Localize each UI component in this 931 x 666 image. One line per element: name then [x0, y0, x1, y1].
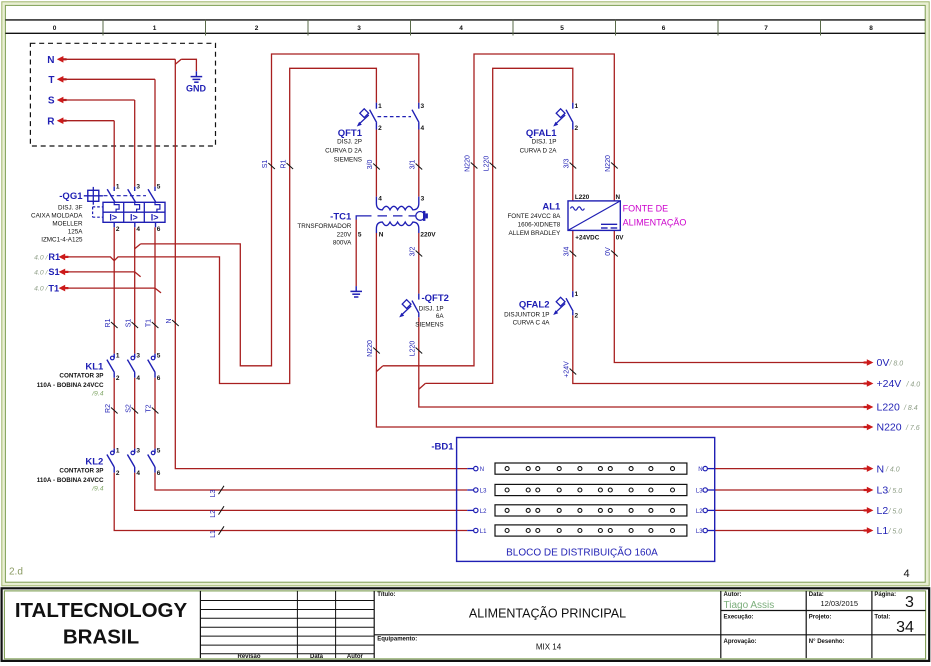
svg-text:4.0 /: 4.0 / — [34, 286, 48, 293]
svg-text:/ 5.0: / 5.0 — [888, 508, 903, 515]
svg-text:3: 3 — [136, 352, 140, 359]
svg-text:CURVA C 4A: CURVA C 4A — [513, 320, 551, 327]
svg-text:AL1: AL1 — [542, 201, 561, 212]
svg-text:/ 5.0: / 5.0 — [888, 529, 903, 536]
svg-text:KL1: KL1 — [85, 362, 104, 373]
svg-text:DISJ. 2P: DISJ. 2P — [337, 138, 362, 145]
svg-text:3: 3 — [421, 196, 425, 203]
svg-text:L220: L220 — [483, 156, 490, 172]
svg-text:5: 5 — [157, 447, 161, 454]
svg-text:800VA: 800VA — [333, 239, 352, 246]
svg-text:S2: S2 — [125, 404, 132, 413]
svg-text:4.0 /: 4.0 / — [34, 255, 48, 262]
svg-text:7: 7 — [764, 25, 768, 32]
svg-text:0: 0 — [53, 25, 57, 32]
svg-text:L220: L220 — [575, 194, 590, 201]
svg-text:4: 4 — [903, 568, 909, 580]
svg-text:T1: T1 — [146, 319, 153, 327]
svg-text:QFAL2: QFAL2 — [519, 300, 550, 311]
svg-text:Equipamento:: Equipamento: — [377, 636, 417, 642]
svg-text:N220: N220 — [877, 422, 902, 434]
svg-text:N220: N220 — [367, 340, 374, 357]
svg-text:2: 2 — [255, 25, 259, 32]
svg-text:/ 8.0: / 8.0 — [889, 361, 904, 368]
svg-text:3: 3 — [421, 103, 425, 110]
svg-text:34: 34 — [896, 619, 914, 636]
svg-text:Tiago Assis: Tiago Assis — [724, 600, 775, 611]
svg-text:110A - BOBINA 24VCC: 110A - BOBINA 24VCC — [37, 477, 104, 484]
svg-text:R2: R2 — [105, 404, 112, 413]
svg-text:N220: N220 — [465, 155, 472, 172]
svg-text:Aprovação:: Aprovação: — [724, 639, 757, 645]
svg-text:110A - BOBINA 24VCC: 110A - BOBINA 24VCC — [37, 382, 104, 389]
svg-text:DISJUNTOR 1P: DISJUNTOR 1P — [504, 312, 549, 319]
svg-text:N° Desenho:: N° Desenho: — [809, 639, 845, 645]
svg-text:S1: S1 — [262, 160, 269, 169]
svg-text:Total:: Total: — [874, 614, 890, 620]
svg-text:CAIXA MOLDADA: CAIXA MOLDADA — [31, 212, 83, 219]
svg-text:S1: S1 — [48, 267, 59, 277]
svg-text:R1: R1 — [280, 159, 287, 168]
svg-text:220V: 220V — [337, 231, 353, 238]
svg-text:ALLEM BRADLEY: ALLEM BRADLEY — [509, 230, 562, 237]
svg-text:KL2: KL2 — [85, 457, 103, 468]
svg-text:0V: 0V — [877, 357, 890, 369]
svg-text:S1: S1 — [125, 319, 132, 328]
svg-text:2: 2 — [378, 125, 382, 132]
svg-text:Data:: Data: — [809, 592, 824, 598]
svg-text:Título:: Título: — [377, 592, 395, 598]
svg-text:+24V: +24V — [877, 378, 902, 390]
svg-text:-QFT2: -QFT2 — [422, 293, 449, 304]
svg-text:L3: L3 — [480, 488, 487, 494]
svg-text:+24V: +24V — [564, 361, 571, 378]
svg-text:ALIMENTAÇÃO PRINCIPAL: ALIMENTAÇÃO PRINCIPAL — [469, 607, 626, 621]
svg-text:MOELLER: MOELLER — [52, 220, 83, 227]
svg-text:L220: L220 — [410, 341, 417, 357]
svg-text:L1: L1 — [877, 525, 889, 537]
svg-text:3/0: 3/0 — [367, 160, 374, 170]
svg-text:3: 3 — [136, 183, 140, 190]
svg-text:T2: T2 — [146, 404, 153, 412]
svg-text:3: 3 — [357, 25, 361, 32]
svg-text:2: 2 — [575, 312, 579, 319]
svg-text:3: 3 — [136, 447, 140, 454]
svg-text:/9.4: /9.4 — [91, 390, 104, 397]
svg-text:MIX 14: MIX 14 — [536, 642, 562, 651]
svg-text:Revisão: Revisão — [237, 654, 260, 660]
svg-text:R1: R1 — [105, 318, 112, 327]
svg-text:125A: 125A — [68, 228, 84, 235]
svg-text:CONTATOR 3P: CONTATOR 3P — [59, 467, 103, 474]
svg-text:5: 5 — [560, 25, 564, 32]
svg-text:4: 4 — [459, 25, 463, 32]
svg-text:3/2: 3/2 — [410, 247, 417, 257]
svg-text:4: 4 — [136, 226, 140, 233]
svg-text:IZMC1-4-A125: IZMC1-4-A125 — [41, 236, 83, 243]
svg-text:BLOCO DE DISTRIBUIÇÃO 160A: BLOCO DE DISTRIBUIÇÃO 160A — [506, 546, 658, 559]
svg-text:1: 1 — [116, 352, 120, 359]
svg-text:DISJ. 3F: DISJ. 3F — [58, 204, 83, 211]
svg-text:N: N — [616, 194, 621, 201]
svg-text:1606-XIDNET8: 1606-XIDNET8 — [518, 222, 561, 229]
svg-text:ALIMENTAÇÃO: ALIMENTAÇÃO — [623, 218, 687, 228]
svg-text:L3: L3 — [696, 529, 703, 535]
svg-text:1: 1 — [116, 183, 120, 190]
svg-text:5: 5 — [358, 232, 362, 239]
svg-text:-TC1: -TC1 — [330, 212, 352, 223]
svg-text:Data: Data — [310, 654, 324, 660]
svg-text:L3: L3 — [696, 488, 703, 494]
svg-text:BRASIL: BRASIL — [63, 626, 139, 649]
svg-text:/ 7.6: / 7.6 — [905, 425, 920, 432]
svg-text:I>: I> — [151, 212, 159, 222]
svg-text:QFAL1: QFAL1 — [526, 128, 557, 139]
svg-text:L2: L2 — [210, 510, 217, 518]
svg-text:L3: L3 — [210, 490, 217, 498]
svg-text:L2: L2 — [877, 505, 889, 517]
svg-text:S: S — [48, 96, 55, 107]
svg-text:L1: L1 — [210, 530, 217, 538]
svg-text:0V: 0V — [616, 235, 625, 242]
svg-text:ITALTECNOLOGY: ITALTECNOLOGY — [15, 599, 188, 622]
svg-text:L2: L2 — [696, 509, 703, 515]
svg-text:2.d: 2.d — [9, 567, 23, 578]
svg-text:5: 5 — [157, 183, 161, 190]
svg-text:/ 4.0: / 4.0 — [906, 382, 921, 389]
svg-text:GND: GND — [186, 83, 207, 93]
svg-text:I>: I> — [109, 212, 117, 222]
svg-text:L3: L3 — [877, 485, 889, 497]
svg-text:0V: 0V — [605, 247, 612, 256]
svg-text:2: 2 — [116, 226, 120, 233]
svg-text:6: 6 — [662, 25, 666, 32]
svg-text:4: 4 — [421, 125, 425, 132]
svg-text:Projeto:: Projeto: — [809, 614, 832, 620]
svg-text:/ 5.0: / 5.0 — [888, 488, 903, 495]
svg-text:N220: N220 — [605, 155, 612, 172]
svg-text:6: 6 — [157, 375, 161, 382]
svg-text:6: 6 — [157, 226, 161, 233]
svg-text:2: 2 — [116, 375, 120, 382]
svg-text:QFT1: QFT1 — [338, 128, 363, 139]
svg-text:SIEMENS: SIEMENS — [334, 157, 362, 164]
svg-text:2: 2 — [575, 125, 579, 132]
svg-text:N: N — [480, 467, 484, 473]
svg-text:T: T — [48, 75, 54, 86]
svg-text:6: 6 — [157, 470, 161, 477]
svg-text:Página:: Página: — [874, 592, 896, 598]
svg-text:R: R — [47, 116, 55, 127]
svg-text:FONTE 24VCC 8A: FONTE 24VCC 8A — [507, 213, 561, 220]
svg-text:1: 1 — [153, 25, 157, 32]
svg-text:DISJ. 1P: DISJ. 1P — [419, 305, 444, 312]
svg-text:-BD1: -BD1 — [431, 442, 454, 453]
svg-text:4: 4 — [136, 470, 140, 477]
svg-text:3/1: 3/1 — [410, 160, 417, 170]
svg-text:N: N — [877, 463, 885, 475]
svg-text:12/03/2015: 12/03/2015 — [820, 599, 858, 608]
svg-text:8: 8 — [869, 25, 873, 32]
svg-text:1: 1 — [575, 103, 579, 110]
svg-text:Execução:: Execução: — [724, 614, 754, 620]
svg-text:N: N — [166, 318, 173, 323]
svg-text:CURVA D 2A: CURVA D 2A — [520, 147, 558, 154]
svg-text:4: 4 — [136, 375, 140, 382]
svg-text:SIEMENS: SIEMENS — [415, 321, 443, 328]
svg-text:4.0 /: 4.0 / — [34, 270, 48, 277]
svg-text:CONTATOR 3P: CONTATOR 3P — [59, 372, 103, 379]
svg-text:R1: R1 — [48, 252, 60, 262]
svg-text:T1: T1 — [48, 283, 59, 293]
svg-text:5: 5 — [157, 352, 161, 359]
svg-text:6A: 6A — [436, 313, 445, 320]
svg-text:2: 2 — [116, 470, 120, 477]
svg-text:3: 3 — [905, 594, 914, 611]
svg-text:-QG1: -QG1 — [59, 191, 83, 202]
svg-text:TRNSFORMADOR: TRNSFORMADOR — [297, 223, 351, 230]
svg-text:3/4: 3/4 — [564, 247, 571, 257]
svg-text:/ 8.4: / 8.4 — [903, 405, 918, 412]
svg-text:N: N — [379, 232, 384, 239]
svg-text:Autor: Autor — [347, 654, 364, 660]
svg-text:L220: L220 — [877, 402, 901, 414]
svg-text:1: 1 — [116, 447, 120, 454]
svg-text:N: N — [47, 55, 54, 66]
svg-text:+24VDC: +24VDC — [575, 235, 599, 242]
svg-text:220V: 220V — [420, 232, 436, 239]
svg-text:CURVA D 2A: CURVA D 2A — [325, 147, 363, 154]
svg-text:3/3: 3/3 — [564, 159, 571, 169]
svg-text:I>: I> — [130, 212, 138, 222]
svg-text:1: 1 — [378, 103, 382, 110]
svg-text:Autor:: Autor: — [724, 592, 742, 598]
svg-text:L2: L2 — [480, 509, 487, 515]
svg-text:4: 4 — [378, 196, 382, 203]
svg-text:/ 4.0: / 4.0 — [885, 467, 900, 474]
svg-text:FONTE DE: FONTE DE — [623, 204, 669, 214]
svg-text:N: N — [698, 467, 702, 473]
svg-text:L1: L1 — [480, 529, 487, 535]
svg-text:DISJ. 1P: DISJ. 1P — [532, 138, 557, 145]
svg-text:1: 1 — [575, 291, 579, 298]
svg-text:/9.4: /9.4 — [91, 485, 104, 492]
